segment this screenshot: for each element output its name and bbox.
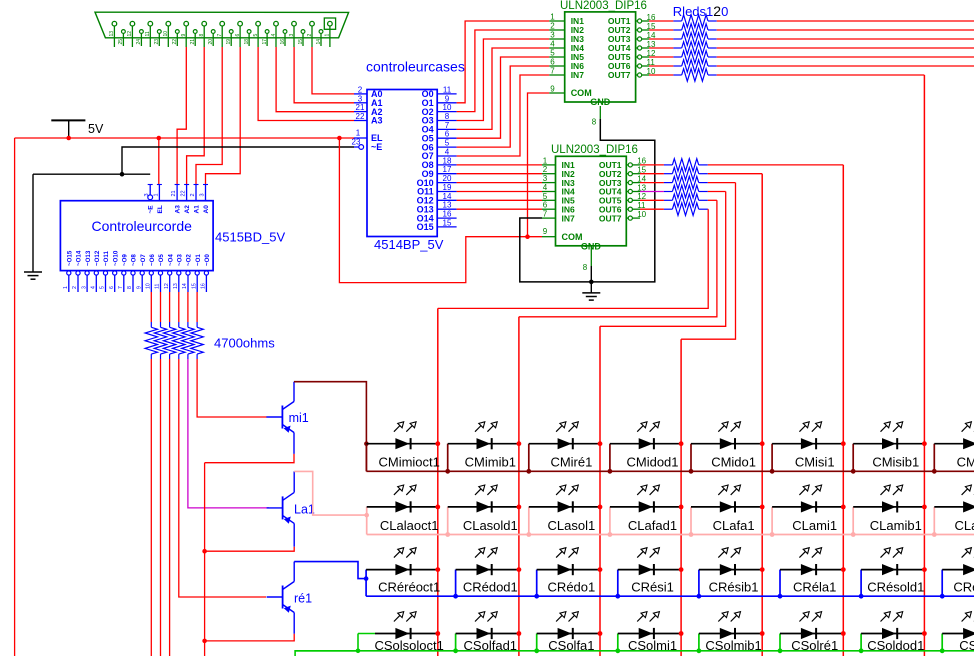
LED CSolré1: [778, 612, 846, 654]
node junction COM ULN2: [525, 234, 530, 239]
IC U3 4515BD_5V Controleurcorde: [60, 184, 213, 292]
svg-text:14: 14: [443, 192, 452, 201]
resistor Rleds120 R2: [649, 24, 717, 36]
node junction emitter rail re1: [202, 639, 207, 644]
svg-text:A3: A3: [175, 205, 182, 214]
wire ground net horizontal: [33, 173, 150, 175]
wire connector pin 22 to 4514 A3: [258, 47, 354, 121]
wire matrix column E: [761, 174, 763, 656]
svg-text:CMisi1: CMisi1: [795, 455, 835, 470]
svg-text:9: 9: [445, 94, 450, 103]
svg-text:5: 5: [543, 192, 548, 201]
resistor ULN2 R1: [640, 159, 708, 171]
svg-text:21: 21: [190, 39, 196, 45]
wire ULN2 OUT1 feed: [708, 164, 844, 166]
svg-text:22: 22: [181, 190, 187, 196]
wire 4514 O1 to ULN1 IN1: [457, 21, 550, 103]
svg-text:CMiré1: CMiré1: [550, 455, 592, 470]
svg-text:3: 3: [550, 31, 555, 40]
node junction row1 feed: [364, 441, 369, 446]
wire ULN2 OUT6 feed: [707, 208, 709, 210]
wire EL to COM net: [339, 138, 542, 283]
node junction row2 feed: [364, 513, 369, 518]
resistor ULN2 R6: [640, 203, 708, 215]
svg-text:18: 18: [443, 156, 452, 165]
svg-text:~O2: ~O2: [186, 254, 193, 266]
svg-text:CLami1: CLami1: [792, 518, 837, 533]
LED CMidod1: [608, 422, 684, 474]
wire 4514 ~E to ground net: [122, 147, 354, 174]
svg-text:4: 4: [543, 183, 548, 192]
wire connector pin 25 to 4514 A0: [312, 47, 354, 94]
wire matrix column F: [842, 165, 844, 656]
svg-text:3: 3: [543, 174, 548, 183]
svg-text:~O4: ~O4: [167, 254, 174, 266]
svg-text:GND: GND: [581, 241, 602, 251]
wire ~O1 to transistor mi1 base: [197, 359, 267, 417]
node junction EL 4515: [157, 136, 162, 141]
svg-text:8: 8: [583, 263, 588, 272]
svg-text:2: 2: [72, 286, 78, 289]
wire ULN1 OUT2 to right edge: [717, 29, 974, 31]
label controleurcases: [366, 59, 465, 75]
svg-text:~O9: ~O9: [122, 254, 129, 266]
wire 4514 O10 to ULN2 IN3: [457, 182, 542, 184]
svg-text:3: 3: [200, 193, 206, 196]
LED CRémi1: [940, 548, 974, 599]
wire row1 feed from mi1: [294, 382, 366, 472]
svg-text:CSol1: CSol1: [959, 638, 974, 653]
svg-text:12: 12: [127, 31, 133, 37]
svg-text:IN7: IN7: [562, 213, 576, 223]
label 4700ohms: [214, 336, 275, 351]
svg-text:7: 7: [550, 67, 555, 76]
svg-text:CLasol1: CLasol1: [548, 518, 596, 533]
resistor Rleds120 R1: [649, 15, 717, 27]
wire ULN2 OUT3 feed: [708, 182, 736, 184]
LED CMimioct1: [366, 422, 440, 472]
svg-text:CMido1: CMido1: [711, 455, 756, 470]
svg-text:10: 10: [637, 210, 646, 219]
svg-text:2: 2: [307, 34, 313, 37]
svg-text:19: 19: [226, 39, 232, 45]
svg-text:16: 16: [201, 283, 207, 289]
LED CSolsoloct1: [375, 612, 444, 653]
svg-text:CRéréoct1: CRéréoct1: [378, 580, 440, 595]
wire column D riser: [681, 183, 735, 340]
node junction black net: [120, 172, 125, 177]
IC U1 ULN2003_DIP16 (top): [549, 0, 656, 126]
svg-text:3: 3: [144, 193, 150, 196]
svg-text:12: 12: [164, 283, 170, 289]
svg-text:EL: EL: [157, 205, 164, 213]
wire 5V rail: [15, 137, 354, 139]
resistor Rleds120 R5: [649, 51, 717, 63]
svg-text:1: 1: [63, 286, 69, 289]
svg-text:controleurcases: controleurcases: [366, 59, 465, 75]
svg-text:O15: O15: [417, 222, 434, 232]
svg-text:~O6: ~O6: [149, 254, 156, 266]
svg-text:CLalaoct1: CLalaoct1: [380, 518, 439, 533]
svg-text:5V: 5V: [88, 122, 104, 136]
LED CMimib1: [445, 422, 521, 474]
svg-text:~O10: ~O10: [112, 250, 119, 266]
svg-text:6: 6: [543, 201, 548, 210]
svg-text:1: 1: [153, 193, 159, 196]
svg-text:La1: La1: [294, 503, 315, 517]
LED CSolmi1: [615, 612, 683, 654]
LED CLasol1: [526, 485, 602, 537]
svg-text:6: 6: [445, 130, 450, 139]
wire 4514 O3 to ULN1 IN3: [457, 39, 550, 121]
wire connector pin 24 to 4514 A1: [294, 47, 354, 103]
svg-text:10: 10: [146, 283, 152, 289]
wire row3 bus: [366, 595, 974, 597]
svg-text:5: 5: [100, 286, 106, 289]
wire column B riser: [519, 200, 717, 316]
svg-text:COM: COM: [562, 232, 583, 242]
svg-text:9: 9: [550, 85, 555, 94]
svg-text:~E: ~E: [148, 205, 155, 214]
svg-text:7: 7: [445, 121, 450, 130]
wire connector pin 23 to 4514 A2: [276, 47, 354, 112]
node junction EL rail: [337, 136, 342, 141]
label 4515BD_5V: [215, 230, 285, 245]
svg-text:~O15: ~O15: [67, 250, 74, 266]
svg-text:CSolsoloct1: CSolsoloct1: [375, 638, 444, 653]
label 4514BP_5V: [374, 237, 444, 252]
LED CRédod1: [453, 548, 521, 599]
svg-text:CSolmi1: CSolmi1: [628, 638, 677, 653]
svg-text:ULN2003_DIP16: ULN2003_DIP16: [551, 144, 638, 156]
svg-text:25: 25: [118, 39, 124, 45]
svg-text:5: 5: [253, 34, 259, 37]
svg-text:3: 3: [81, 286, 87, 289]
wire 4514 O2 to ULN1 IN2: [457, 30, 550, 112]
wire La1 collector: [293, 471, 295, 492]
wire ULN1 OUT3 to right edge: [717, 38, 974, 40]
wire matrix column A: [437, 308, 439, 656]
LED CLafa1: [689, 485, 765, 537]
svg-text:17: 17: [262, 39, 268, 45]
svg-text:A0: A0: [203, 205, 210, 214]
svg-text:18: 18: [244, 39, 250, 45]
resistor Rleds120 R3: [649, 33, 717, 45]
svg-text:4700ohms: 4700ohms: [214, 336, 275, 351]
LED CRésold1: [859, 548, 927, 599]
svg-text:~O7: ~O7: [140, 254, 147, 266]
svg-text:3: 3: [358, 94, 363, 103]
wire matrix column C: [599, 326, 601, 656]
resistor ULN2 R2: [640, 168, 708, 180]
svg-text:~O0: ~O0: [204, 254, 211, 266]
svg-text:IN7: IN7: [571, 70, 585, 80]
svg-text:CRésold1: CRésold1: [867, 580, 924, 595]
svg-text:4514BP_5V: 4514BP_5V: [374, 237, 444, 252]
svg-text:~O12: ~O12: [94, 250, 101, 266]
wire ground net to GND1: [32, 174, 34, 272]
wire mi1 emitter: [205, 433, 294, 463]
svg-text:4: 4: [271, 34, 277, 37]
wire La1 emitter: [205, 523, 295, 551]
svg-text:17: 17: [443, 165, 452, 174]
svg-text:16: 16: [443, 210, 452, 219]
wire column A riser: [438, 209, 708, 308]
wire ULN2 GND stub: [583, 246, 592, 293]
wire row2 bus: [367, 534, 974, 536]
wire ~O4 column down: [169, 359, 171, 656]
svg-text:OUT7: OUT7: [608, 70, 631, 80]
node junction row3 feed: [364, 576, 369, 581]
svg-text:CLasold1: CLasold1: [463, 518, 518, 533]
wire ~O2 to transistor La1 base (magenta): [188, 359, 269, 508]
svg-text:Controleurcorde: Controleurcorde: [92, 218, 193, 234]
LED CMisib1: [851, 422, 927, 474]
wire 4514 O6 to ULN1 IN6: [457, 66, 550, 147]
svg-text:2: 2: [543, 165, 548, 174]
LED CMido1: [689, 422, 765, 474]
svg-text:13: 13: [109, 31, 115, 37]
wire 4514 O9 to ULN2 IN2: [457, 173, 542, 175]
LED CRésib1: [697, 548, 765, 599]
svg-text:CSolfad1: CSolfad1: [464, 638, 517, 653]
svg-text:4: 4: [91, 286, 97, 289]
resistor Rleds120 R6: [649, 60, 717, 72]
node junction emitter rail La1: [202, 549, 207, 554]
IC U2 4514BP_5V: [352, 85, 457, 236]
wire 4514 O4 to ULN1 IN4: [457, 48, 550, 129]
svg-text:CRédod1: CRédod1: [463, 580, 518, 595]
wire connector pin 21 to 4515 A0: [206, 47, 241, 184]
svg-text:A1: A1: [194, 205, 201, 214]
svg-text:CRésib1: CRésib1: [709, 580, 759, 595]
resistor ULN2 R3: [640, 176, 708, 188]
wire 4514 O13 to ULN2 IN6: [457, 208, 542, 210]
wire matrix column B: [518, 317, 520, 656]
wire 4514 O12 to ULN2 IN5: [457, 199, 542, 201]
svg-text:4: 4: [550, 40, 555, 49]
svg-text:A3: A3: [371, 116, 383, 126]
svg-text:~O14: ~O14: [76, 250, 83, 266]
svg-text:~O5: ~O5: [158, 254, 165, 266]
svg-text:CMisib1: CMisib1: [872, 455, 919, 470]
wire row3 feed from re1: [294, 562, 366, 579]
LED CLamib1: [851, 485, 927, 537]
svg-text:14: 14: [316, 39, 322, 45]
wire row1 bus: [366, 470, 974, 472]
LED CRési1: [615, 548, 683, 599]
svg-text:COM: COM: [571, 88, 592, 98]
svg-text:CMila1: CMila1: [957, 455, 974, 470]
svg-text:8: 8: [445, 112, 450, 121]
connector J1 DB25: [95, 12, 349, 47]
wire connector pin 20 to 4515 A1: [196, 47, 222, 184]
svg-text:1: 1: [356, 129, 361, 138]
LED CLalaoct1: [367, 485, 440, 535]
svg-text:Rleds120: Rleds120: [673, 3, 729, 19]
svg-text:CLaso1: CLaso1: [954, 518, 974, 533]
svg-text:A2: A2: [184, 205, 191, 214]
svg-text:11: 11: [155, 284, 161, 289]
LED CLami1: [770, 485, 846, 537]
wire ~O6 column down: [150, 359, 152, 656]
svg-text:~O13: ~O13: [85, 250, 92, 266]
LED CSolmib1: [697, 612, 765, 654]
svg-text:CRési1: CRési1: [631, 580, 674, 595]
svg-text:CRéla1: CRéla1: [793, 580, 836, 595]
svg-text:CLamib1: CLamib1: [870, 518, 922, 533]
svg-text:ULN2003_DIP16: ULN2003_DIP16: [560, 0, 647, 12]
svg-text:6: 6: [235, 34, 241, 37]
wire re1 emitter: [205, 613, 295, 641]
LED CLaso1: [932, 485, 974, 537]
wire matrix column D: [680, 339, 682, 656]
wire connector pin 18 to 4515 A3: [177, 47, 186, 184]
svg-text:10: 10: [443, 103, 452, 112]
LED CMisi1: [770, 422, 846, 474]
wire mi1 base blue stub: [266, 416, 268, 418]
svg-text:13: 13: [173, 283, 179, 289]
transistor La1: [267, 492, 315, 523]
svg-text:1: 1: [325, 34, 331, 37]
wire 4514 O5 to ULN1 IN5: [457, 57, 550, 138]
wire 4514 O8 to ULN2 IN1: [457, 164, 542, 166]
svg-text:9: 9: [543, 227, 548, 236]
svg-text:14: 14: [182, 283, 188, 289]
svg-text:5: 5: [445, 139, 450, 148]
svg-text:15: 15: [298, 39, 304, 45]
wire ~O5 column down: [160, 359, 162, 656]
svg-text:7: 7: [217, 34, 223, 37]
svg-text:7: 7: [543, 210, 548, 219]
svg-text:CLafa1: CLafa1: [713, 518, 755, 533]
node junction 5V stem: [66, 136, 71, 141]
svg-text:OUT7: OUT7: [599, 213, 622, 223]
LED CSol1: [940, 612, 974, 654]
resistor Rleds120 R4: [649, 42, 717, 54]
svg-text:10: 10: [163, 31, 169, 37]
svg-text:6: 6: [109, 286, 115, 289]
wire ULN1 OUT5 to right edge: [717, 56, 974, 58]
wire re1 collector: [293, 562, 295, 582]
svg-text:15: 15: [191, 283, 197, 289]
svg-text:CLafad1: CLafad1: [628, 518, 677, 533]
svg-text:1: 1: [543, 156, 548, 165]
wire connector pin 19 to 4515 A2: [187, 47, 205, 184]
svg-text:13: 13: [443, 201, 452, 210]
LED CMila1: [932, 422, 974, 474]
svg-text:21: 21: [171, 190, 177, 196]
svg-text:24: 24: [136, 39, 142, 45]
wire ULN1 OUT6 to right edge: [717, 65, 974, 67]
LED CSolfad1: [453, 612, 521, 654]
IC U4 ULN2003_DIP16 (middle): [542, 144, 647, 252]
wire COM link to ULN1: [528, 93, 550, 237]
wire ULN1 OUT1 to right edge: [717, 20, 974, 22]
LED CRéréoct1: [366, 548, 440, 597]
svg-text:23: 23: [154, 39, 160, 45]
svg-text:CMimib1: CMimib1: [465, 455, 516, 470]
LED CRéla1: [778, 548, 846, 599]
wire ULN1 OUT4 to right edge: [717, 47, 974, 49]
svg-text:~O11: ~O11: [103, 250, 110, 266]
wire ULN2 OUT5 feed: [708, 199, 717, 201]
svg-text:CRémi1: CRémi1: [953, 580, 974, 595]
svg-text:CSolfa1: CSolfa1: [548, 638, 594, 653]
svg-text:23: 23: [352, 138, 361, 147]
label Rleds120: [673, 3, 729, 19]
svg-text:19: 19: [443, 183, 452, 192]
wire row4 feed from sol1: [295, 651, 358, 656]
svg-text:~O3: ~O3: [177, 254, 184, 266]
wire ULN1 GND to ground loop: [520, 119, 655, 282]
svg-text:8: 8: [127, 286, 133, 289]
wire matrix column G: [923, 75, 925, 656]
node junction GND net: [589, 280, 594, 285]
svg-text:4: 4: [445, 148, 450, 157]
LED CSolfa1: [534, 612, 602, 654]
wire 4514 O11 to ULN2 IN4: [457, 191, 542, 193]
svg-text:CSolmib1: CSolmib1: [705, 638, 761, 653]
wire mi1 collector to row1: [293, 382, 295, 402]
svg-text:20: 20: [208, 39, 214, 45]
LED CSoldod1: [859, 612, 927, 654]
svg-text:16: 16: [280, 39, 286, 45]
transistor re1: [267, 582, 313, 613]
wire ~O3 to transistor re1 base: [179, 359, 266, 597]
resistor ULN2 R4: [640, 185, 708, 197]
svg-text:5: 5: [550, 49, 555, 58]
LED CRédo1: [534, 548, 602, 599]
wire ULN2 OUT4 feed: [708, 191, 726, 193]
ground GND2: [582, 293, 600, 300]
svg-text:1: 1: [550, 13, 555, 22]
resistor ULN2 R5: [640, 194, 708, 206]
svg-text:4515BD_5V: 4515BD_5V: [215, 230, 285, 245]
svg-text:7: 7: [118, 286, 124, 289]
LED CLasold1: [445, 485, 521, 537]
resistor network 4700ohms: [145, 292, 203, 359]
wire emitter rail: [204, 463, 206, 656]
svg-text:3: 3: [289, 34, 295, 37]
svg-text:11: 11: [443, 85, 452, 94]
wire row2 feed from La1: [294, 471, 367, 515]
svg-text:CMimioct1: CMimioct1: [378, 455, 439, 470]
svg-text:21: 21: [356, 103, 365, 112]
wire column C riser: [600, 192, 726, 327]
power 5V symbol: [51, 120, 104, 138]
svg-text:20: 20: [443, 174, 452, 183]
wire 4514 O7 to ULN1 IN7: [457, 75, 550, 156]
svg-text:2: 2: [358, 85, 363, 94]
wire ULN1 OUT7 to matrix column G: [717, 74, 925, 76]
svg-text:ré1: ré1: [294, 592, 312, 606]
svg-text:~O1: ~O1: [195, 254, 202, 266]
svg-text:9: 9: [136, 286, 142, 289]
svg-text:2: 2: [190, 193, 196, 196]
svg-text:~O8: ~O8: [131, 254, 138, 266]
svg-text:mi1: mi1: [289, 411, 309, 425]
svg-text:22: 22: [356, 112, 365, 121]
LED CLafad1: [608, 485, 684, 537]
node junction row4 feed: [356, 649, 361, 654]
svg-text:2: 2: [550, 22, 555, 31]
svg-text:GND: GND: [590, 97, 611, 107]
svg-text:8: 8: [592, 118, 597, 127]
svg-text:CSolré1: CSolré1: [791, 638, 838, 653]
wire 5V to 4515 EL pin: [158, 138, 160, 184]
wire row4 bus: [295, 650, 974, 652]
